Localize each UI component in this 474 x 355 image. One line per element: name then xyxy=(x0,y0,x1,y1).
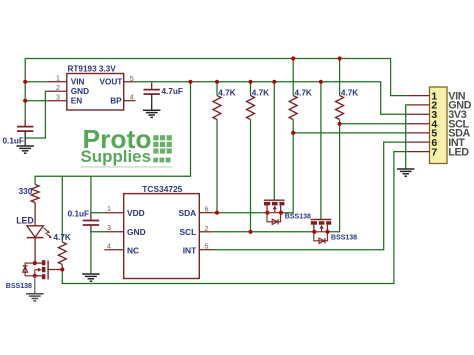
pin number 3 GND xyxy=(107,223,111,232)
label TCS34725 xyxy=(142,184,182,194)
wire GND connector pin2 xyxy=(406,105,408,169)
wire sensor GND xyxy=(91,232,105,274)
pin SCL stub xyxy=(199,231,212,233)
pin number 6 SDA xyxy=(205,205,209,214)
svg-text:NC: NC xyxy=(127,245,139,255)
wire gate Q2 from 3V3 rail xyxy=(320,82,322,220)
wire SDA sensor to Q1 xyxy=(213,212,268,214)
resistor R2 4.7K xyxy=(247,96,255,120)
label 4.7uF xyxy=(162,87,183,96)
label 0.1uF input xyxy=(3,137,24,146)
pin VIN stub xyxy=(48,81,67,83)
wire gate Q1 from 3V3 rail xyxy=(273,82,275,200)
pin number 3 xyxy=(56,93,60,102)
wire R1 bottom lead to SDA xyxy=(216,120,218,213)
resistor R4 4.7K xyxy=(336,96,344,120)
svg-text:INT: INT xyxy=(183,245,197,255)
pin name BP xyxy=(110,97,122,106)
label 4.7K R3 xyxy=(295,88,312,97)
ground input cap xyxy=(16,146,34,153)
wire 0.1uF sensor top lead xyxy=(90,213,92,221)
pin number 2 SCL xyxy=(205,224,209,233)
wire 3V3 drop to sensor row xyxy=(35,82,190,185)
wire 4.7K pulldown top lead xyxy=(61,176,63,242)
connector pin stubs xyxy=(408,96,430,152)
logo Proto text xyxy=(83,124,152,154)
node 3V3 R1 xyxy=(215,80,219,84)
pin name SCL xyxy=(179,227,196,237)
label 4.7K R1 xyxy=(218,88,235,97)
node 3V3 drop xyxy=(188,80,192,84)
svg-text:BSS138: BSS138 xyxy=(6,283,32,290)
svg-text:BP: BP xyxy=(110,97,122,106)
node SCL R2 xyxy=(248,230,252,234)
wire VIN to EN pin3 xyxy=(25,100,48,102)
svg-text:4.7K: 4.7K xyxy=(218,88,235,97)
node Q3 drain xyxy=(33,261,37,265)
wire R2 top lead xyxy=(250,82,252,96)
pin number 1 VDD xyxy=(107,204,111,213)
svg-text:1: 1 xyxy=(56,74,60,83)
wire 4.7uF cap top lead xyxy=(151,83,153,90)
svg-text:0.1uF: 0.1uF xyxy=(3,137,24,146)
svg-text:LED: LED xyxy=(16,216,34,226)
node Q3 source xyxy=(33,274,37,278)
label BSS138 Q3 xyxy=(6,283,32,290)
node VIN R4 xyxy=(338,56,342,60)
pin number 1 xyxy=(56,74,60,83)
ground connector xyxy=(397,169,415,176)
pin EN stub xyxy=(48,100,67,102)
node Q2 source xyxy=(312,230,316,234)
transistor Q1 BSS138 SDA xyxy=(264,200,285,224)
logo Supplies text xyxy=(81,147,152,166)
svg-text:7: 7 xyxy=(431,146,437,158)
label BSS138 Q1 xyxy=(285,213,311,220)
connector pin labels xyxy=(448,90,471,158)
wire 4.7K pulldown bottom lead xyxy=(61,265,63,270)
wire VDD to sensor pin1 xyxy=(91,212,105,214)
pin name VOUT xyxy=(100,78,123,87)
wire VDD sensor xyxy=(90,176,92,213)
svg-text:BSS138: BSS138 xyxy=(331,234,357,241)
pin INT stub xyxy=(199,249,212,251)
wire SDA to connector pin5 xyxy=(293,132,407,134)
pin BP stub xyxy=(124,100,136,102)
IC U1 RT9193 voltage regulator xyxy=(67,74,124,111)
svg-text:GND: GND xyxy=(71,87,89,96)
IC U2 TCS34725 color sensor xyxy=(124,194,200,279)
node Q3 gate xyxy=(60,267,64,271)
capacitor 0.1uF input xyxy=(17,127,33,132)
svg-text:4: 4 xyxy=(130,93,134,102)
svg-text:4.7K: 4.7K xyxy=(295,88,312,97)
ground sensor xyxy=(82,274,100,281)
label BSS138 Q2 xyxy=(331,234,357,241)
svg-text:5: 5 xyxy=(130,74,134,83)
pin name EN xyxy=(71,97,82,106)
wire R3 bottom lead to SDA level shifter xyxy=(281,120,293,213)
svg-text:4.7K: 4.7K xyxy=(341,88,358,97)
wire LED net xyxy=(62,152,407,284)
svg-text:5: 5 xyxy=(205,242,209,251)
ground output cap xyxy=(143,110,161,117)
wire VIN to pin1 RT9193 xyxy=(25,81,48,83)
wire R2 bottom lead to SCL xyxy=(250,120,252,232)
svg-text:GND: GND xyxy=(127,227,146,237)
label 4.7K R2 xyxy=(252,88,269,97)
svg-text:3: 3 xyxy=(56,93,60,102)
svg-text:3: 3 xyxy=(107,223,111,232)
wire SCL to connector pin4 xyxy=(340,123,408,125)
connector J1 body xyxy=(430,87,448,164)
node 3V3 gateQ2 xyxy=(319,80,323,84)
pin VOUT stub xyxy=(124,81,136,83)
wire LED cathode to Q3 drain xyxy=(34,238,36,264)
label RT9193 3.3V xyxy=(68,64,117,73)
label LED xyxy=(16,216,34,226)
svg-text:VOUT: VOUT xyxy=(100,78,123,87)
pin number 5 xyxy=(130,74,134,83)
svg-text:TCS34725: TCS34725 xyxy=(142,184,182,194)
capacitor 4.7uF xyxy=(144,90,160,95)
svg-text:VIN: VIN xyxy=(71,78,85,87)
pin VDD stub xyxy=(104,212,123,214)
wire R4 top lead from VIN rail xyxy=(339,59,341,96)
resistor 4.7K gate pulldown xyxy=(58,242,66,265)
pin NC stub xyxy=(104,249,123,251)
svg-text:4.7K: 4.7K xyxy=(54,233,71,242)
node SCL 5V xyxy=(338,122,342,126)
pin GND stub xyxy=(104,231,123,233)
wire 0.1uF sensor bottom lead xyxy=(90,225,92,232)
transistor Q2 BSS138 SCL xyxy=(311,220,332,244)
wire Q3 source to ground xyxy=(34,276,36,294)
pin number 4 xyxy=(130,93,134,102)
svg-text:SCL: SCL xyxy=(179,227,196,237)
node VIN R3 xyxy=(291,56,295,60)
svg-text:RT9193 3.3V: RT9193 3.3V xyxy=(68,64,117,73)
node Q1 drain xyxy=(279,211,283,215)
capacitor 0.1uF sensor xyxy=(83,221,99,226)
wire cap to ground xyxy=(24,131,26,146)
wire R1 top lead xyxy=(216,82,218,96)
svg-text:2: 2 xyxy=(56,83,60,92)
pin name GND xyxy=(127,227,146,237)
connector pin numbers xyxy=(431,90,437,158)
svg-text:LED: LED xyxy=(448,146,469,158)
wire GND pin2 RT9193 xyxy=(25,91,48,138)
svg-text:4: 4 xyxy=(107,242,111,251)
node SDA 5V xyxy=(291,131,295,135)
svg-text:4.7uF: 4.7uF xyxy=(162,87,183,96)
svg-text:1: 1 xyxy=(107,204,111,213)
label 0.1uF sensor xyxy=(68,210,89,219)
svg-text:SDA: SDA xyxy=(179,208,197,218)
transistor Q3 BSS138 xyxy=(23,260,63,279)
wire INT net xyxy=(213,142,408,250)
pin name VIN xyxy=(71,78,85,87)
svg-text:6: 6 xyxy=(205,205,209,214)
pin number 2 xyxy=(56,83,60,92)
svg-text:VDD: VDD xyxy=(127,208,145,218)
resistor 330 xyxy=(31,185,39,203)
svg-text:Supplies: Supplies xyxy=(81,147,152,166)
label 4.7K gate xyxy=(54,233,71,242)
logo underline xyxy=(81,166,173,168)
wire R4 bottom lead to SCL level shifter xyxy=(328,120,340,232)
node Q1 source xyxy=(265,211,269,215)
resistor R1 4.7K xyxy=(213,96,221,120)
wire VIN top rail xyxy=(25,59,407,121)
pin name VDD xyxy=(127,208,145,218)
node 3V3 gateQ1 xyxy=(272,80,276,84)
svg-text:330: 330 xyxy=(19,187,33,196)
pin name INT xyxy=(183,245,197,255)
label 4.7K R4 xyxy=(341,88,358,97)
node Q2 drain xyxy=(325,230,329,234)
svg-text:BSS138: BSS138 xyxy=(285,213,311,220)
pin number 4 NC xyxy=(107,242,111,251)
node 3V3 R2 xyxy=(248,80,252,84)
node VIN-EN xyxy=(23,99,27,103)
pin GND stub xyxy=(48,90,67,92)
ground Q3 xyxy=(26,294,44,301)
svg-text:EN: EN xyxy=(71,97,82,106)
wire 330 to LED xyxy=(34,203,36,226)
wire R3 top lead from VIN rail xyxy=(292,59,294,96)
label 330 xyxy=(19,187,33,196)
wire SCL sensor to Q2 xyxy=(213,231,315,233)
pin name NC xyxy=(127,245,139,255)
svg-text:2: 2 xyxy=(205,224,209,233)
pin name GND xyxy=(71,87,89,96)
svg-text:4.7K: 4.7K xyxy=(252,88,269,97)
pin SDA stub xyxy=(199,212,212,214)
logo squares xyxy=(153,135,172,162)
wire 3V3 rail xyxy=(136,82,408,115)
LED D1 xyxy=(27,226,52,239)
resistor R3 4.7K xyxy=(289,96,297,120)
wire cap to ground xyxy=(151,94,153,110)
node VIN-pin1 xyxy=(23,80,27,84)
node SDA R1 xyxy=(215,211,219,215)
svg-text:0.1uF: 0.1uF xyxy=(68,210,89,219)
pin number 5 INT xyxy=(205,242,209,251)
pin name SDA xyxy=(179,208,197,218)
wire 0.1uF input top lead xyxy=(24,120,26,127)
